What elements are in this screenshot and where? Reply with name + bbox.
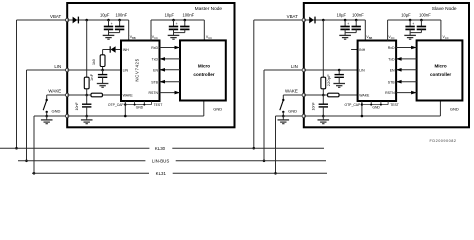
svg-text:VBAT: VBAT <box>50 14 61 19</box>
junction VCC/C 10uF <box>172 19 175 22</box>
capacitor C6 10nF <box>86 95 88 104</box>
wire GND/TEST sub-rail <box>362 104 388 106</box>
svg-text:WAKE: WAKE <box>285 89 298 94</box>
diode D2 master termination <box>111 46 116 52</box>
svg-text:INH: INH <box>123 48 130 52</box>
wire LIN external <box>27 69 68 71</box>
svg-text:VCC: VCC <box>206 35 212 40</box>
junction LIN/LIN-BUS <box>25 160 28 163</box>
junction OTP_CAP/sub-rail <box>361 103 363 105</box>
wire RxD <box>396 47 417 49</box>
junction VCC/C 100nF <box>184 19 187 22</box>
junction OTP_CAP/GND rail <box>361 115 364 118</box>
junction VBAT/WAKE pull-up <box>322 19 325 22</box>
bus LIN-BUS <box>18 160 145 162</box>
junction LIN/cap <box>338 69 341 72</box>
svg-text:FD20090082: FD20090082 <box>430 139 457 143</box>
svg-text:GND: GND <box>52 109 61 114</box>
wire RSTN <box>160 92 181 94</box>
wire GND/TEST sub-rail <box>125 104 151 106</box>
wire OTP_CAP <box>124 101 126 116</box>
resistor R4 WAKE pull-up <box>322 20 324 77</box>
junction WAKE/pull-up <box>322 94 325 97</box>
terminal GND <box>66 114 69 117</box>
junction GND pin 1 <box>134 104 136 106</box>
svg-text:RxD: RxD <box>151 46 158 50</box>
terminal WAKE <box>66 93 69 96</box>
wire GND rail internal <box>67 115 204 117</box>
svg-text:controller: controller <box>193 72 214 77</box>
svg-text:+: + <box>412 22 414 26</box>
svg-text:TxD: TxD <box>388 58 395 62</box>
resistor R5 WAKE series <box>328 93 339 97</box>
junction VBAT/C 100nF <box>118 19 121 22</box>
resistor R2 WAKE pull-up <box>86 20 88 77</box>
switch S2 wake <box>282 95 284 99</box>
wire RSTN <box>396 92 417 94</box>
wire WAKE internal <box>304 94 328 96</box>
svg-text:VBAT: VBAT <box>287 14 298 19</box>
svg-text:GND: GND <box>288 109 297 114</box>
svg-text:LIN: LIN <box>54 64 61 69</box>
junction LIN/cap <box>101 69 104 72</box>
svg-text:KL30: KL30 <box>155 146 166 151</box>
svg-text:VCC: VCC <box>152 35 158 40</box>
terminal VBAT <box>302 18 305 21</box>
junction VCC/C 100nF <box>420 19 423 22</box>
wire TxD <box>396 58 417 60</box>
wire WAKE external <box>47 94 67 96</box>
wire EN <box>160 69 181 71</box>
wire WAKE internal <box>67 94 91 96</box>
svg-text:100nF: 100nF <box>182 12 194 17</box>
junction LIN/LIN-BUS <box>263 160 266 163</box>
svg-text:1nF: 1nF <box>90 73 94 81</box>
Master node box <box>67 3 234 127</box>
junction switch/GND wire <box>282 115 285 118</box>
wire RxD <box>160 47 181 49</box>
svg-text:Micro: Micro <box>434 64 446 69</box>
svg-text:+: + <box>176 22 178 26</box>
wire VBAT external <box>254 19 304 21</box>
svg-text:WAKE: WAKE <box>359 94 370 98</box>
junction VBAT/C 10uF <box>344 19 347 22</box>
diode D3 reverse-battery <box>309 17 314 24</box>
ground 10nF <box>322 116 324 120</box>
junction OTP_CAP/sub-rail <box>124 103 126 105</box>
wire WAKE external <box>283 94 304 96</box>
svg-text:TEST: TEST <box>390 103 399 107</box>
svg-text:Slave Node: Slave Node <box>432 6 457 12</box>
svg-text:STB: STB <box>388 80 395 84</box>
ground LIN cap <box>333 83 345 85</box>
capacitor C8 100nF <box>355 20 357 27</box>
terminal GND <box>302 114 305 117</box>
wire VBAT internal <box>67 19 129 21</box>
wire LIN internal <box>67 69 121 71</box>
svg-text:10µF: 10µF <box>165 12 175 17</box>
svg-text:GND: GND <box>372 105 380 109</box>
svg-text:1k0: 1k0 <box>92 59 96 65</box>
ground LIN cap <box>97 83 109 85</box>
svg-text:GND: GND <box>213 106 222 111</box>
junction VBAT/WAKE pull-up <box>85 19 88 22</box>
capacitor C12 10nF <box>322 95 324 104</box>
Slave node box <box>304 3 469 127</box>
junction VCC/C 10uF <box>409 19 412 22</box>
stub INH <box>351 49 358 51</box>
svg-text:Micro: Micro <box>198 64 210 69</box>
LIN transceiver U1 NCV7425 <box>121 41 160 102</box>
capacitor C10 10uF <box>409 20 411 27</box>
terminal LIN <box>302 68 305 71</box>
junction VBAT/KL30 <box>253 147 256 150</box>
junction OTP_CAP/GND rail <box>124 115 127 118</box>
svg-text:LIN: LIN <box>291 64 298 69</box>
wire VCC net <box>387 20 389 41</box>
svg-text:VCC: VCC <box>388 35 394 40</box>
junction WAKE/pull-up <box>85 94 88 97</box>
wire VBAT internal <box>304 19 366 21</box>
svg-text:OTP_CAP: OTP_CAP <box>344 103 361 107</box>
junction VBAT/C 10uF <box>107 19 110 22</box>
svg-text:controller: controller <box>430 72 451 77</box>
wire EN <box>396 69 417 71</box>
svg-text:VCC: VCC <box>443 35 449 40</box>
svg-text:WAKE: WAKE <box>123 94 134 98</box>
svg-text:LIN: LIN <box>359 69 365 73</box>
junction VBAT/C 100nF <box>355 19 358 22</box>
wire STB <box>396 81 417 83</box>
capacitor C1 10uF <box>108 20 110 27</box>
resistor R1 1k0 <box>100 55 105 67</box>
junction switch/GND wire <box>45 115 48 118</box>
diode D1 reverse-battery <box>73 17 78 24</box>
junction VBAT/KL30 <box>15 147 18 150</box>
svg-text:100nF: 100nF <box>352 12 364 17</box>
junction GND/KL31 <box>274 172 277 175</box>
wire GND external <box>276 115 304 117</box>
svg-text:STB: STB <box>151 80 158 84</box>
svg-text:NCV7425: NCV7425 <box>134 58 139 81</box>
bus KL31 <box>32 172 149 174</box>
junction GND/KL31 <box>33 172 36 175</box>
svg-text:220pF: 220pF <box>327 74 331 87</box>
wire LIN external <box>264 69 304 71</box>
ground supply caps <box>339 34 351 36</box>
ground VCC caps <box>404 34 416 36</box>
svg-text:+: + <box>347 22 349 26</box>
capacitor C4 10uF <box>173 20 175 27</box>
bus KL30 <box>0 147 149 149</box>
capacitor C7 10uF <box>344 20 346 27</box>
wire STB <box>160 81 181 83</box>
svg-text:RSTN: RSTN <box>385 91 395 95</box>
junction GND pin 2 <box>143 104 145 106</box>
capacitor C11 100nF <box>420 20 422 27</box>
svg-text:100nF: 100nF <box>419 12 431 17</box>
svg-text:RxD: RxD <box>388 46 395 50</box>
svg-text:VBB: VBB <box>130 35 136 40</box>
wire OTP_CAP <box>361 101 363 116</box>
svg-text:100nF: 100nF <box>115 12 127 17</box>
capacitor C5 100nF <box>184 20 186 27</box>
LIN transceiver U3 NCV7425 <box>358 41 397 102</box>
terminal LIN <box>66 68 69 71</box>
svg-text:OTP_CAP: OTP_CAP <box>108 103 125 107</box>
svg-text:RSTN: RSTN <box>148 91 158 95</box>
wire GND rail internal <box>304 115 441 117</box>
svg-text:LIN: LIN <box>123 69 129 73</box>
ground switch <box>282 116 284 120</box>
svg-text:GND: GND <box>450 106 459 111</box>
junction GND pin 2 <box>380 104 382 106</box>
wire VCC net <box>150 20 152 41</box>
svg-text:VBB: VBB <box>366 35 372 40</box>
svg-text:Master Node: Master Node <box>195 6 223 12</box>
capacitor C9 220pF <box>338 70 340 74</box>
svg-text:10µF: 10µF <box>100 12 110 17</box>
junction GND pin 1 <box>370 104 372 106</box>
capacitor C3 1nF <box>102 70 104 74</box>
svg-text:KL31: KL31 <box>156 171 167 176</box>
svg-text:EN: EN <box>390 68 395 72</box>
terminal WAKE <box>302 93 305 96</box>
svg-text:TEST: TEST <box>154 103 163 107</box>
junction 10nF/GND rail <box>322 115 325 118</box>
svg-text:10nF: 10nF <box>312 102 316 111</box>
svg-text:10µF: 10µF <box>337 12 347 17</box>
ground 10nF <box>86 116 88 120</box>
resistor R3 WAKE series <box>91 93 102 97</box>
ground supply caps <box>103 34 115 36</box>
ground VCC caps <box>168 34 180 36</box>
svg-text:10µF: 10µF <box>401 12 411 17</box>
svg-text:10nF: 10nF <box>75 102 79 111</box>
ground switch <box>46 116 48 120</box>
wire INH <box>116 49 121 51</box>
svg-text:+: + <box>111 22 113 26</box>
svg-text:EN: EN <box>153 68 158 72</box>
svg-text:INH: INH <box>359 48 366 52</box>
terminal VBAT <box>66 18 69 21</box>
svg-text:LIN-BUS: LIN-BUS <box>152 158 169 163</box>
junction 10nF/GND rail <box>85 115 88 118</box>
microcontroller U2 <box>180 40 226 100</box>
svg-text:GND: GND <box>136 105 144 109</box>
wire VBAT external <box>17 19 68 21</box>
switch S1 wake <box>46 95 48 99</box>
wire LIN internal <box>304 69 358 71</box>
wire GND external <box>34 115 67 117</box>
svg-text:WAKE: WAKE <box>48 89 61 94</box>
microcontroller U4 <box>417 40 463 100</box>
svg-text:TxD: TxD <box>152 58 159 62</box>
wire TxD <box>160 58 181 60</box>
capacitor C2 100nF <box>119 20 121 27</box>
